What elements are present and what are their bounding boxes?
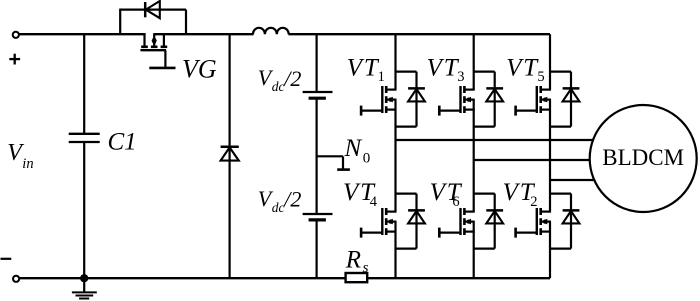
transistor VT2: [515, 208, 551, 238]
transistor VT3: [438, 86, 474, 116]
svg-text:/2: /2: [282, 186, 301, 211]
svg-text:2: 2: [530, 194, 537, 210]
capacitor C1: [69, 134, 100, 142]
svg-text:in: in: [22, 156, 33, 172]
resistor Rs: [346, 273, 368, 282]
svg-text:C1: C1: [108, 128, 137, 155]
junction C1 / ground node: [80, 274, 88, 282]
svg-text:dc: dc: [272, 200, 285, 215]
diode VD across VT2: [550, 194, 579, 249]
wire phase A: [396, 139, 595, 141]
node N0 tap: [317, 156, 350, 169]
label Vdc/2 upper: [258, 65, 302, 94]
label - (minus): [1, 258, 12, 260]
transistor VT4: [360, 208, 396, 238]
transistor VT1: [360, 86, 396, 116]
wire DC-link branch top: [316, 34, 318, 91]
wire DC-link branch middle: [316, 99, 318, 214]
wire leg1 midpoint: [394, 100, 396, 212]
svg-text:VG: VG: [182, 54, 217, 83]
wire freewheel diode branch: [229, 34, 231, 278]
svg-text:BLDCM: BLDCM: [602, 145, 684, 170]
label VT1: [347, 55, 385, 86]
wire DC-link branch bottom: [316, 221, 318, 279]
svg-text:5: 5: [537, 69, 544, 85]
transistor VG (chopper switch): [140, 33, 175, 68]
wire top rail right (to inductor): [154, 33, 253, 35]
ground: [72, 278, 97, 298]
motor BLDCM: [590, 105, 697, 212]
transistor VT6: [438, 208, 474, 238]
diode VD across VT5: [550, 72, 579, 127]
svg-text:N: N: [344, 135, 363, 162]
transistor VT5: [515, 86, 551, 116]
svg-text:s: s: [363, 260, 369, 276]
wire C1 branch top: [83, 34, 85, 133]
wire C1 branch bottom: [83, 142, 85, 278]
svg-text:/2: /2: [282, 66, 301, 91]
wire leg3 midpoint: [549, 100, 551, 212]
wire phase B: [474, 159, 591, 161]
wire leg1 drain (rail to VT1): [394, 34, 396, 89]
svg-text:6: 6: [452, 194, 459, 210]
inductor L: [253, 28, 289, 34]
diode across VG: [119, 1, 186, 34]
wire bottom rail left: [19, 277, 345, 279]
diode VD across VT4: [396, 194, 425, 249]
svg-text:0: 0: [363, 151, 371, 167]
wire bottom rail right: [367, 277, 550, 279]
wire leg2 source (VT6 to rail): [473, 222, 475, 279]
wire top rail right (inductor to legs): [288, 33, 550, 35]
wire leg2 midpoint: [473, 100, 475, 212]
label VT6: [430, 179, 463, 210]
diode freewheel: [221, 147, 239, 161]
diode VD across VT1: [396, 72, 425, 127]
diode VD across VT6: [474, 194, 503, 249]
capacitor Vdc/2 lower: [303, 214, 333, 220]
label VT5: [506, 55, 544, 86]
label VT2: [503, 179, 538, 210]
svg-text:R: R: [345, 246, 361, 273]
label Vin: [7, 140, 33, 172]
label VT3: [427, 55, 465, 86]
svg-text:1: 1: [378, 69, 385, 85]
label VT4: [343, 179, 378, 210]
wire leg3 source (VT2 to rail): [549, 222, 551, 279]
svg-text:dc: dc: [272, 79, 285, 94]
wire leg3 drain (rail to VT5): [549, 34, 551, 89]
label N0: [344, 135, 371, 167]
wire top rail left: [19, 33, 146, 35]
svg-text:3: 3: [457, 69, 464, 85]
wire leg2 drain (rail to VT3): [473, 34, 475, 89]
terminal input -: [13, 276, 19, 282]
capacitor Vdc/2 upper: [303, 92, 333, 98]
svg-text:4: 4: [370, 194, 378, 210]
label Vdc/2 lower: [258, 186, 302, 215]
wire leg1 source (VT4 to rail): [394, 222, 396, 279]
label Rs: [345, 246, 369, 276]
label +: [9, 54, 20, 65]
terminal input +: [13, 32, 19, 38]
wire phase C: [550, 179, 595, 181]
diode VD across VT3: [474, 72, 503, 127]
